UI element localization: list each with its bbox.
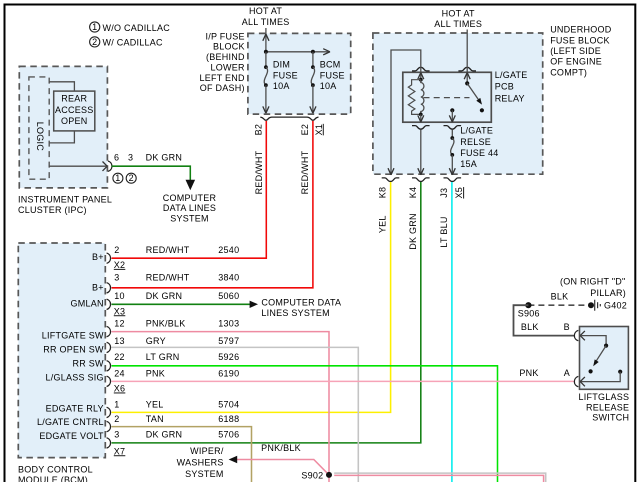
svg-text:3: 3	[128, 153, 133, 163]
svg-text:EDGATE RLY: EDGATE RLY	[46, 403, 104, 413]
svg-text:PCB: PCB	[495, 82, 514, 92]
svg-text:B+: B+	[92, 283, 104, 293]
svg-text:HOT AT: HOT AT	[249, 6, 282, 16]
svg-text:S906: S906	[518, 308, 540, 318]
node: bus junction at DIM fuse	[264, 50, 268, 54]
svg-text:22: 22	[114, 352, 125, 362]
svg-text:L/GATE: L/GATE	[460, 126, 493, 136]
svg-text:2540: 2540	[218, 245, 239, 255]
svg-text:5926: 5926	[218, 352, 239, 362]
svg-text:1: 1	[114, 400, 119, 410]
svg-text:SYSTEM: SYSTEM	[185, 469, 224, 479]
relay switch branch: entry arrow	[464, 67, 470, 83]
svg-text:DATA LINES: DATA LINES	[163, 203, 216, 213]
svg-text:BODY CONTROL: BODY CONTROL	[18, 465, 93, 475]
svg-text:L/GLASS SIG: L/GLASS SIG	[46, 373, 104, 383]
svg-text:(LEFT SIDE: (LEFT SIDE	[550, 46, 601, 56]
svg-text:LINES SYSTEM: LINES SYSTEM	[261, 308, 330, 318]
wire: GRY 5797 down	[112, 347, 359, 482]
svg-text:SYSTEM: SYSTEM	[170, 214, 209, 224]
label: HOT AT ALL TIMES (underhood)	[434, 8, 482, 29]
svg-text:B2: B2	[254, 124, 264, 136]
svg-text:RELSE: RELSE	[460, 137, 491, 147]
svg-text:10A: 10A	[273, 81, 290, 91]
wire: PNK/BLK 1303 to S902	[112, 332, 330, 472]
node: switch contact (release)	[589, 369, 593, 373]
wire: BLK dashed to ground G402	[528, 304, 591, 306]
wire: BLK from S906 to switch B	[514, 305, 575, 335]
svg-text:(ON RIGHT "D": (ON RIGHT "D"	[560, 276, 625, 286]
relay pin arc (coil bottom)	[412, 126, 430, 130]
fuse L/GATE RELSE FUSE 44 15A	[450, 126, 498, 174]
svg-text:2: 2	[92, 37, 97, 47]
svg-text:EDGATE VOLT: EDGATE VOLT	[39, 431, 104, 441]
svg-text:OF ENGINE: OF ENGINE	[550, 57, 602, 67]
liftglass release switch box	[579, 327, 630, 423]
wire: TAN 6188 down	[112, 427, 252, 482]
svg-text:CLUSTER (IPC): CLUSTER (IPC)	[18, 205, 87, 215]
svg-text:X1: X1	[314, 124, 324, 136]
svg-text:6190: 6190	[218, 369, 239, 379]
svg-text:RR SW: RR SW	[73, 359, 105, 369]
svg-text:L/GATE: L/GATE	[495, 70, 528, 80]
BCM pin row texts	[114, 245, 239, 440]
svg-text:COMPT): COMPT)	[550, 67, 587, 77]
node S902	[326, 472, 332, 478]
wire: DK GRN 5706 K4 to BCM pin 3	[112, 182, 421, 443]
svg-text:I/P FUSE: I/P FUSE	[205, 32, 244, 42]
svg-text:G402: G402	[604, 300, 627, 310]
svg-text:DK GRN: DK GRN	[146, 153, 183, 163]
switch A terminal connector	[574, 372, 620, 387]
svg-text:TAN: TAN	[146, 414, 164, 424]
label: computer data lines system (IPC)	[163, 193, 217, 224]
svg-text:2: 2	[129, 173, 134, 183]
svg-text:WASHERS: WASHERS	[177, 457, 224, 467]
IPC logic block	[29, 77, 49, 179]
resistor across relay coil	[408, 80, 421, 115]
wire: LT GRN 5926 down	[112, 366, 498, 482]
svg-text:13: 13	[114, 336, 125, 346]
wire: bus to BCM fuse with arrow	[266, 49, 330, 55]
svg-text:3840: 3840	[218, 273, 239, 283]
fuse BCM FUSE 10A	[310, 52, 345, 113]
svg-text:24: 24	[114, 369, 125, 379]
svg-text:DIM: DIM	[273, 60, 290, 70]
node: relay output contact	[450, 108, 454, 112]
svg-text:J3: J3	[439, 188, 449, 198]
splice S902 branches	[237, 460, 546, 482]
svg-text:5706: 5706	[218, 430, 239, 440]
svg-text:ACCESS: ACCESS	[55, 105, 94, 115]
arrow to computer data lines system (down)	[186, 180, 196, 190]
svg-text:2: 2	[114, 245, 119, 255]
svg-text:K8: K8	[377, 187, 387, 199]
relay coil (spring)	[421, 80, 424, 115]
svg-text:X6: X6	[114, 384, 126, 394]
svg-text:GRY: GRY	[146, 336, 166, 346]
svg-text:W/O CADILLAC: W/O CADILLAC	[103, 23, 171, 33]
svg-text:LOWER: LOWER	[211, 62, 246, 72]
svg-text:(BEHIND: (BEHIND	[206, 52, 245, 62]
svg-text:5060: 5060	[218, 291, 239, 301]
svg-text:OPEN: OPEN	[61, 116, 88, 126]
node: bus junction at BCM fuse	[311, 50, 315, 54]
relay armature	[467, 83, 482, 104]
svg-text:LT GRN: LT GRN	[146, 352, 180, 362]
label: wiper/washers system	[177, 446, 224, 479]
svg-text:REAR: REAR	[61, 94, 87, 104]
svg-text:LOGIC: LOGIC	[35, 122, 45, 152]
node: relay NO contact	[480, 108, 484, 112]
svg-text:HOT AT: HOT AT	[442, 8, 475, 18]
arrow to wiper/washers system	[229, 456, 238, 463]
note circle 1 at IPC pin	[113, 173, 123, 183]
svg-text:WIPER/: WIPER/	[190, 446, 224, 456]
wire: YEL 5704 K8 to BCM pin 1	[112, 182, 391, 412]
svg-text:SWITCH: SWITCH	[592, 413, 629, 423]
wire: hot feed into I/P fuse block	[263, 28, 269, 52]
pin arc K8	[382, 178, 400, 182]
svg-text:PNK/BLK: PNK/BLK	[261, 443, 301, 453]
relay pin arc (coil top)	[412, 67, 430, 71]
svg-text:K4: K4	[408, 187, 418, 199]
svg-text:E2: E2	[300, 124, 310, 136]
svg-text:BLK: BLK	[551, 291, 569, 301]
node: switch contact A side	[618, 370, 622, 374]
svg-text:LT BLU: LT BLU	[439, 216, 449, 247]
relay L/GATE PCB RELAY box	[403, 70, 528, 122]
svg-text:B: B	[564, 322, 570, 332]
relay coil branch: entry arrow	[418, 67, 424, 80]
svg-text:LEFT END: LEFT END	[199, 73, 245, 83]
node: switch pivot	[465, 81, 469, 85]
svg-text:ALL TIMES: ALL TIMES	[434, 19, 482, 29]
svg-text:PNK/BLK: PNK/BLK	[146, 318, 186, 328]
wire: DK GRN from IPC to computer data lines system	[112, 166, 191, 181]
svg-text:15A: 15A	[460, 159, 477, 169]
relay output exit arrow (J3)	[449, 110, 455, 122]
svg-text:YEL: YEL	[377, 215, 387, 233]
wire: hot feed into underhood block	[466, 30, 468, 67]
node: coil top	[419, 78, 423, 82]
node: switch common	[604, 344, 608, 348]
svg-text:3: 3	[114, 273, 119, 283]
connector X1 bracket under I/P fuse block	[260, 117, 318, 120]
relay coil exit arrow (K4)	[418, 114, 424, 122]
svg-text:12: 12	[114, 318, 125, 328]
exit arrows at bottom of underhood block	[388, 168, 455, 175]
svg-text:UNDERHOOD: UNDERHOOD	[550, 25, 612, 35]
svg-text:OF DASH): OF DASH)	[200, 83, 245, 93]
svg-text:DK GRN: DK GRN	[146, 291, 183, 301]
svg-text:FUSE BLOCK: FUSE BLOCK	[550, 35, 610, 45]
svg-text:LIFTGLASS: LIFTGLASS	[579, 392, 630, 402]
svg-text:1: 1	[115, 173, 120, 183]
REAR ACCESS OPEN indicator	[54, 91, 95, 131]
pin arc K4	[412, 178, 430, 182]
svg-text:COMPUTER DATA: COMPUTER DATA	[261, 298, 341, 308]
svg-text:YEL: YEL	[146, 400, 164, 410]
svg-text:X2: X2	[114, 260, 126, 270]
label: HOT AT ALL TIMES (I/P fuse block)	[242, 6, 290, 27]
svg-text:FUSE 44: FUSE 44	[460, 148, 498, 158]
I/P fuse block box	[199, 32, 350, 114]
legend note 2: W/ CADILLAC	[90, 37, 163, 48]
svg-text:RED/WHT: RED/WHT	[146, 273, 190, 283]
wire: logic to rear access open (top)	[49, 82, 74, 91]
svg-text:RR OPEN SW: RR OPEN SW	[43, 344, 104, 354]
svg-text:10A: 10A	[320, 81, 337, 91]
wire: DK GRN 5060 GMLAN to computer data lines	[112, 298, 342, 318]
svg-text:BLK: BLK	[521, 322, 539, 332]
switch B terminal connector	[574, 330, 606, 343]
svg-text:RELEASE: RELEASE	[586, 402, 629, 412]
svg-text:1: 1	[92, 22, 97, 32]
note circle 2 at IPC pin	[126, 173, 136, 183]
svg-text:DK GRN: DK GRN	[408, 213, 418, 250]
svg-text:GMLAN: GMLAN	[71, 298, 104, 308]
relay pin arc (output bottom)	[444, 126, 462, 130]
svg-text:RED/WHT: RED/WHT	[300, 150, 310, 194]
svg-text:X3: X3	[114, 306, 126, 316]
svg-text:LIFTGATE SW: LIFTGATE SW	[42, 331, 104, 341]
svg-text:S902: S902	[301, 470, 323, 480]
wire: PNK 6190 to liftglass switch A	[112, 380, 575, 382]
wire: RED/WHT 3840 from E2 to BCM pin 3	[112, 121, 313, 288]
svg-text:10: 10	[114, 291, 125, 301]
svg-text:X5: X5	[454, 187, 464, 199]
svg-text:5704: 5704	[218, 400, 239, 410]
wire: rear access open to logic (bottom)	[49, 131, 74, 143]
svg-text:L/GATE CNTRL: L/GATE CNTRL	[37, 417, 104, 427]
label: (ON RIGHT "D" PILLAR)	[560, 276, 626, 298]
svg-text:W/ CADILLAC: W/ CADILLAC	[103, 38, 164, 48]
wire: LT BLU from J3 down	[451, 182, 453, 482]
svg-text:FUSE: FUSE	[320, 71, 345, 81]
svg-text:MODULE (BCM): MODULE (BCM)	[18, 475, 88, 482]
wire: K4 inside fuse block	[420, 130, 422, 174]
IPC output pin 6/3 with connector	[49, 153, 182, 172]
node: coil bottom	[419, 113, 423, 117]
svg-text:ALL TIMES: ALL TIMES	[242, 17, 290, 27]
switch armature	[593, 346, 606, 367]
svg-text:3: 3	[114, 430, 119, 440]
fuse DIM FUSE 10A	[263, 52, 298, 113]
svg-text:2: 2	[114, 414, 119, 424]
ground G402	[588, 300, 627, 311]
svg-text:RELAY: RELAY	[495, 93, 525, 103]
svg-text:BLOCK: BLOCK	[213, 42, 245, 52]
svg-text:1303: 1303	[218, 318, 239, 328]
instrument panel cluster (IPC) box	[18, 66, 112, 215]
svg-text:X7: X7	[114, 446, 126, 456]
svg-text:INSTRUMENT PANEL: INSTRUMENT PANEL	[18, 195, 112, 205]
legend note 1: W/O CADILLAC	[90, 22, 171, 33]
body control module (BCM) box	[18, 243, 105, 482]
svg-text:PNK: PNK	[519, 368, 538, 378]
svg-text:A: A	[564, 368, 570, 378]
underhood fuse block box	[373, 25, 612, 175]
svg-text:6188: 6188	[218, 414, 239, 424]
wire: K8 feed loop to relay coil	[391, 50, 421, 174]
svg-text:DK GRN: DK GRN	[146, 430, 183, 440]
relay pin arc (switch top)	[458, 67, 476, 71]
svg-text:5797: 5797	[218, 336, 239, 346]
svg-text:B+: B+	[92, 252, 104, 262]
dashed link coil to armature	[424, 97, 470, 99]
svg-text:FUSE: FUSE	[273, 71, 298, 81]
wire: RED/WHT 2540 from B2 to BCM pin 2	[112, 121, 267, 258]
svg-text:RED/WHT: RED/WHT	[146, 245, 190, 255]
pin arc J3/X5	[444, 178, 462, 182]
svg-text:6: 6	[114, 153, 119, 163]
svg-text:BCM: BCM	[320, 60, 341, 70]
node S906	[525, 302, 531, 308]
svg-text:PNK: PNK	[146, 369, 165, 379]
svg-text:PILLAR): PILLAR)	[590, 288, 626, 298]
svg-text:COMPUTER: COMPUTER	[163, 193, 217, 203]
BCM connector arcs	[107, 253, 111, 448]
BCM pin labels (left column)	[37, 252, 104, 441]
svg-text:RED/WHT: RED/WHT	[254, 150, 264, 194]
